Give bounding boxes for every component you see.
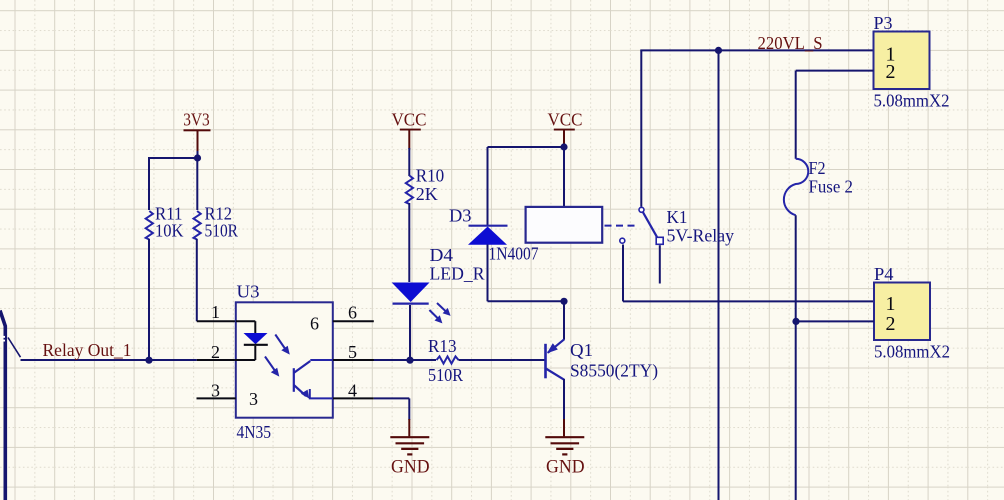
svg-text:3: 3 — [211, 381, 220, 401]
svg-text:4N35: 4N35 — [237, 422, 272, 442]
svg-text:GND: GND — [391, 458, 430, 478]
svg-text:2: 2 — [886, 313, 896, 335]
svg-text:5: 5 — [348, 342, 357, 362]
svg-text:2K: 2K — [416, 184, 438, 204]
svg-text:3V3: 3V3 — [183, 109, 210, 129]
svg-text:220VL_S: 220VL_S — [758, 33, 823, 53]
svg-text:510R: 510R — [428, 365, 463, 385]
svg-text:1: 1 — [211, 302, 220, 322]
svg-text:2: 2 — [886, 61, 896, 83]
svg-text:1: 1 — [886, 293, 896, 315]
svg-text:Q1: Q1 — [570, 340, 593, 360]
svg-text:5.08mmX2: 5.08mmX2 — [874, 91, 950, 111]
svg-text:LED_R: LED_R — [430, 263, 485, 283]
svg-text:D4: D4 — [430, 245, 454, 265]
svg-text:P3: P3 — [874, 13, 893, 33]
svg-text:U3: U3 — [237, 282, 260, 302]
svg-text:1N4007: 1N4007 — [489, 244, 539, 264]
svg-text:510R: 510R — [205, 221, 239, 241]
svg-text:6: 6 — [310, 314, 319, 334]
svg-text:F2: F2 — [809, 158, 826, 178]
svg-text:K1: K1 — [667, 207, 688, 227]
svg-text:4: 4 — [348, 381, 357, 401]
svg-text:D3: D3 — [449, 206, 472, 226]
svg-text:R13: R13 — [428, 336, 457, 356]
svg-text:R10: R10 — [416, 165, 445, 185]
svg-text:GND: GND — [546, 458, 585, 478]
svg-text:5V-Relay: 5V-Relay — [667, 226, 735, 246]
svg-text:2: 2 — [211, 342, 220, 362]
svg-text:5.08mmX2: 5.08mmX2 — [874, 342, 950, 362]
svg-text:VCC: VCC — [548, 109, 583, 129]
svg-text:10K: 10K — [155, 221, 184, 241]
svg-text:Relay Out_1: Relay Out_1 — [43, 340, 132, 360]
svg-text:P4: P4 — [874, 264, 894, 284]
svg-text:6: 6 — [348, 303, 357, 323]
svg-text:VCC: VCC — [392, 109, 427, 129]
svg-text:S8550(2TY): S8550(2TY) — [570, 360, 658, 381]
svg-text:3: 3 — [249, 389, 258, 409]
svg-text:Fuse 2: Fuse 2 — [809, 177, 854, 197]
